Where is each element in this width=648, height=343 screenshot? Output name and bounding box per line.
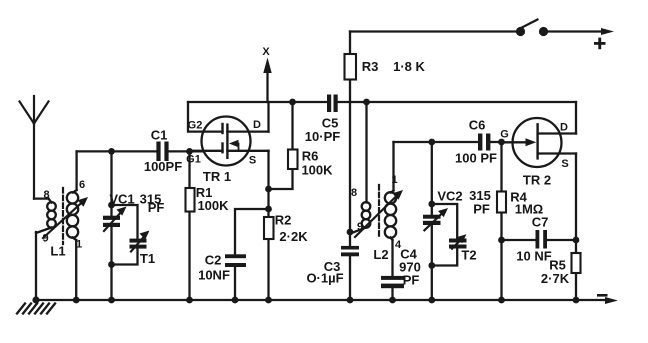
svg-text:R3: R3 [362, 59, 379, 74]
svg-text:10 NF: 10 NF [516, 249, 551, 264]
svg-text:X: X [262, 46, 270, 58]
svg-text:8: 8 [43, 189, 49, 201]
svg-text:PF: PF [148, 200, 165, 215]
svg-text:L2: L2 [373, 247, 388, 262]
svg-text:VC2: VC2 [437, 189, 462, 204]
svg-text:S: S [249, 155, 256, 167]
svg-text:T2: T2 [461, 248, 476, 263]
svg-text:L1: L1 [50, 244, 65, 259]
svg-text:100PF: 100PF [144, 159, 182, 174]
svg-text:R2: R2 [275, 213, 292, 228]
svg-text:100 PF: 100 PF [455, 151, 497, 166]
svg-text:C1: C1 [151, 128, 168, 143]
svg-text:TR 2: TR 2 [523, 173, 551, 188]
svg-text:1·8 K: 1·8 K [393, 59, 425, 74]
svg-text:D: D [560, 122, 568, 134]
svg-text:8: 8 [351, 187, 357, 199]
svg-text:100K: 100K [301, 163, 333, 178]
svg-text:1: 1 [76, 239, 82, 251]
svg-text:R6: R6 [302, 149, 319, 164]
svg-text:9: 9 [42, 233, 48, 245]
svg-text:2·2K: 2·2K [279, 229, 308, 244]
svg-text:9: 9 [357, 221, 363, 233]
svg-text:S: S [561, 158, 568, 170]
svg-text:TR 1: TR 1 [203, 169, 231, 184]
svg-text:10·PF: 10·PF [305, 129, 340, 144]
svg-text:O·1µF: O·1µF [306, 271, 343, 286]
svg-text:VC1: VC1 [109, 192, 134, 207]
svg-text:2·7K: 2·7K [541, 271, 570, 286]
svg-text:PF: PF [403, 273, 420, 288]
svg-text:100K: 100K [197, 198, 229, 213]
svg-text:G2: G2 [188, 120, 203, 132]
svg-text:G1: G1 [186, 154, 201, 166]
svg-text:D: D [253, 119, 261, 131]
svg-text:T1: T1 [140, 251, 155, 266]
svg-text:6: 6 [79, 179, 85, 191]
svg-text:C7: C7 [532, 215, 549, 230]
svg-text:PF: PF [473, 202, 490, 217]
svg-text:C2: C2 [205, 253, 222, 268]
svg-text:C6: C6 [469, 118, 486, 133]
svg-text:1: 1 [391, 174, 397, 186]
svg-text:G: G [500, 129, 509, 141]
svg-text:10NF: 10NF [198, 268, 230, 283]
